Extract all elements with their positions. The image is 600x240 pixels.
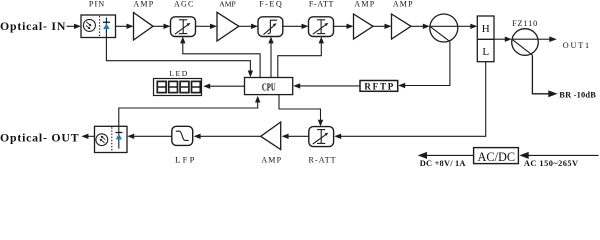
switch H/L box <box>477 16 494 62</box>
svg-text:CPU: CPU <box>262 81 276 93</box>
wire Optical-IN arrow <box>67 25 76 27</box>
svg-text:H: H <box>482 23 490 35</box>
equalizer F-EQ box <box>258 17 283 37</box>
LED digit 2 <box>169 81 178 92</box>
transmitter dotted divider <box>111 127 113 151</box>
laser diode (blue) <box>118 126 120 148</box>
svg-text:AMP: AMP <box>354 0 375 9</box>
wire AMP1 to AGC <box>153 25 165 27</box>
wire CPU to R-ATT control <box>279 95 321 122</box>
wire AMP3 to AMP4 <box>373 25 386 27</box>
wire coupler to H/L <box>458 25 472 27</box>
wire FZ110 tap to BR <box>532 55 549 94</box>
LED display box <box>154 79 202 96</box>
svg-text:BR -10dB: BR -10dB <box>559 90 596 99</box>
svg-text:AMP: AMP <box>393 0 414 9</box>
svg-text:F-ATT: F-ATT <box>309 0 334 9</box>
wire PIN monitor to CPU <box>106 38 250 73</box>
svg-text:PIN: PIN <box>89 0 106 9</box>
wire AC input <box>526 154 599 156</box>
wire AGC to AMP2 <box>196 25 212 27</box>
svg-text:DC +8V/ 1A: DC +8V/ 1A <box>420 159 466 168</box>
wire laser monitor to CPU <box>119 100 258 126</box>
wire to Optical-OUT <box>87 135 95 137</box>
amplifier AMP5 <box>261 122 281 150</box>
PIN photodiode (blue) <box>105 18 107 38</box>
optical transmitter box <box>95 126 128 152</box>
svg-text:Optical- OUT: Optical- OUT <box>0 130 79 144</box>
amplifier AMP1 <box>134 13 154 41</box>
wire PIN to AMP1 <box>116 25 129 27</box>
wire AMP4 to coupler <box>411 25 425 27</box>
PIN dotted divider <box>99 16 101 37</box>
svg-text:AMP: AMP <box>261 155 282 164</box>
wire DC output <box>424 154 474 156</box>
RFTP box <box>360 81 398 92</box>
wire CPU to LED <box>209 85 245 87</box>
wire CPU to F-EQ control <box>268 37 273 44</box>
lowpass filter LFP box <box>172 126 193 145</box>
PIN light arrows <box>86 22 90 25</box>
attenuator R-ATT box <box>309 127 334 147</box>
coupler tap circle <box>430 14 458 42</box>
svg-text:LFP: LFP <box>175 154 197 164</box>
amplifier AMP3 <box>354 14 374 39</box>
wire coupler tap to RFTP <box>404 42 450 86</box>
wire F-ATT to AMP3 <box>334 25 349 27</box>
wire LFP to transmitter <box>133 135 172 137</box>
wire CPU to AGC control <box>180 37 185 44</box>
amplifier AMP4 <box>392 14 412 39</box>
PIN fiber circle <box>83 19 95 31</box>
wire R-ATT to AMP5 <box>287 135 309 137</box>
svg-text:AMP: AMP <box>133 0 154 9</box>
laser symbol arrows <box>101 140 105 143</box>
amplifier AMP2 <box>217 12 239 41</box>
attenuator AGC box <box>171 17 196 37</box>
svg-text:Optical- IN: Optical- IN <box>0 19 66 33</box>
attenuator F-ATT box <box>309 17 334 37</box>
wire H/L to R-ATT <box>340 62 486 137</box>
output coupler FZ110 <box>512 29 539 56</box>
svg-text:AC 150~265V: AC 150~265V <box>524 159 579 168</box>
svg-text:R-ATT: R-ATT <box>309 155 337 164</box>
wire H/L to FZ110 <box>494 38 507 40</box>
wire AMP5 to LFP <box>199 135 261 137</box>
wire F-EQ to F-ATT <box>283 25 303 27</box>
wire CPU to F-ATT control <box>319 37 324 44</box>
LED digit 1 <box>157 81 166 92</box>
svg-text:FZ110: FZ110 <box>512 19 538 28</box>
wire AMP2 to F-EQ <box>239 25 253 27</box>
optical receiver PIN box <box>81 15 116 38</box>
svg-text:AGC: AGC <box>174 0 195 9</box>
CPU box <box>245 78 293 95</box>
svg-text:OUT1: OUT1 <box>563 41 591 50</box>
svg-text:RFTP: RFTP <box>364 82 395 92</box>
svg-text:AMP: AMP <box>219 0 235 9</box>
LED digit 3 <box>180 81 189 92</box>
wire RFTP to CPU <box>299 85 361 87</box>
svg-text:F-EQ: F-EQ <box>259 0 283 9</box>
laser circle <box>96 134 108 146</box>
svg-text:AC/DC: AC/DC <box>478 150 516 164</box>
AC/DC power box <box>474 148 519 164</box>
LED digit 4 <box>192 81 201 92</box>
wire FZ110 to OUT1 <box>538 38 551 40</box>
svg-text:L: L <box>482 46 489 58</box>
svg-text:LED: LED <box>169 69 189 78</box>
